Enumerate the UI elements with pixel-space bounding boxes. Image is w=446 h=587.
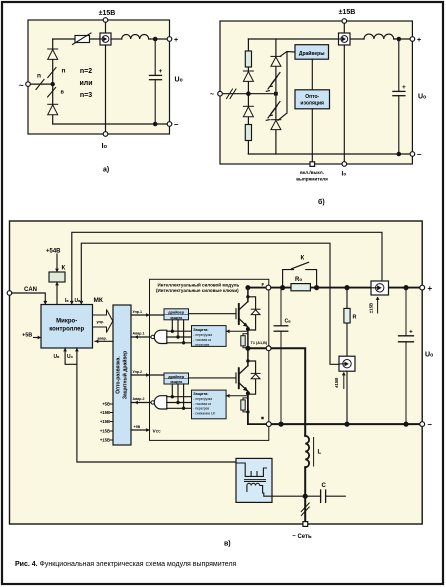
driver 2 status pins down [172,384,183,408]
wire +54V to relay coil K [56,254,58,272]
svg-text:- токовая кз: - токовая кз [193,338,211,342]
terminal - (b) [410,152,415,157]
svg-text:n: n [62,68,66,75]
svg-text:~: ~ [19,81,24,90]
svg-text:- перегрев: - перегрев [193,343,209,347]
gate 1 inversion bubble [151,335,154,338]
mains sense transformer box [236,458,272,502]
svg-text:Защита:: Защита: [193,392,208,396]
arrow into MK top pin1 [70,301,74,305]
emitter wire 2 with shunt to module bottom [248,393,269,424]
wire inductor to + terminal (b) [394,38,413,40]
junction shunt 1 bottom [246,346,249,349]
junction bottom bus at sensor 2 [344,422,349,427]
collector wire IGBT 2 to mid node [247,348,249,365]
resistor divider leg (b) [247,39,249,154]
svg-text:МК: МК [94,297,103,304]
wire trace Iv: MK top to current sensor 1 [72,232,382,304]
svg-text:C: C [322,483,327,489]
thyristor slash upper (a) [48,68,56,78]
opto supply label +5V [100,402,110,443]
node input junction (a) [51,82,55,86]
arrow Upr2 at module edge [146,373,149,377]
gate wire driver 1 to IGBT 1 [189,313,237,315]
svg-text:в): в) [224,541,231,548]
svg-text:контроллер: контроллер [49,327,84,333]
wire terminal to sensor (b) [343,23,345,33]
terminal module mid output [266,346,271,351]
emitter wire 1 with shunt [247,329,249,348]
svg-text:Т1 (А1,В): Т1 (А1,В) [251,341,268,345]
current sensor box (a) [100,33,111,45]
capacitor Co (a) [150,39,162,124]
svg-text:- токовая кз: - токовая кз [193,402,211,406]
wire +5V into MK with arrow [34,337,42,339]
svg-text:Iо: Iо [342,171,347,178]
freewheel diode 1 [251,309,260,314]
current sensor 1 box on bus [371,281,389,295]
svg-text:+15В: +15В [100,410,110,415]
varistor RU (a) [73,33,92,45]
svg-text:F: F [262,282,265,287]
svg-text:+: + [417,37,421,44]
schematic frame box v [10,221,423,524]
terminal - (a) [167,122,172,127]
voltage sensor 2 box [339,356,355,371]
wire inductor to + terminal (a) [149,38,170,40]
arrow +5V into module [146,428,149,432]
svg-text:упр.: упр. [97,320,104,324]
wire left branch vertical (a) [52,39,54,124]
gate wires from drivers box (b) [278,52,295,121]
svg-text:n=2: n=2 [80,68,92,75]
thyristor T1 (b) [271,56,281,66]
svg-text:авар.: авар. [98,337,107,341]
driver 1 status pins down [172,320,183,343]
svg-text:Uо: Uо [425,352,433,359]
label on-off rectifier (b) [296,170,328,182]
boost inductor L [305,436,309,467]
junction top bus at Uo cap [403,285,408,290]
wire sensor 2 to bottom bus [346,371,348,424]
opto supply stub wires [111,404,114,440]
junction mid node [245,346,250,351]
wire sensor to Io terminal (a) [105,45,107,134]
svg-text:+: + [159,68,163,75]
resistor R [344,308,350,323]
resistor R1 (b) [245,51,251,67]
svg-text:Упр.1: Упр.1 [133,310,142,314]
svg-text:±15В: ±15В [368,303,373,313]
svg-text:Защита:: Защита: [193,328,208,332]
supply wire +5V to module Vcc [131,429,150,431]
terminal +15V (a) [103,18,108,23]
diode D2 (b) [243,106,253,116]
svg-text:Авар.1: Авар.1 [133,332,145,336]
terminal +-15V (b) [342,19,347,24]
arrow into coil K bottom [55,282,59,285]
svg-text:Авар.2: Авар.2 [133,397,145,401]
control wire Upr2 opto to driver 2 [131,374,164,376]
input slash (a) [36,80,44,90]
svg-text:+5В: +5В [102,402,110,407]
svg-text:К: К [62,266,66,272]
junction bottom bus at Uo cap [403,422,408,427]
wire terminal to current sensor (a) [105,22,107,33]
bypass switch K legs [283,270,317,288]
wire L to mains terminal [304,467,306,522]
wire top rail (b) [248,38,364,40]
terminal module bottom output [266,422,271,427]
svg-text:- перегрузка: - перегрузка [193,397,212,401]
junction dots driver 2 pins [171,395,186,410]
current sense wire shunt 1 to protection 1 [226,330,248,332]
svg-text:±15В: ±15В [99,10,116,17]
thyristor T2 gate marks (b) [266,102,280,121]
inductor L (b) [364,34,394,39]
junction node cap top (b) [397,37,402,42]
svg-text:~: ~ [210,92,214,99]
diode D1 (a) [48,49,58,59]
resistor Ro [291,284,310,291]
svg-text:Микро-: Микро- [56,319,77,325]
svg-text:выпрямителя: выпрямителя [296,177,328,182]
wire coil K to MK [56,282,58,305]
svg-text:+54В: +54В [46,249,61,255]
IGBT 2 emitter arrow [243,387,248,391]
inductor core bar [313,438,315,467]
svg-text:Опто-развязка.: Опто-развязка. [116,356,122,394]
svg-text:Интеллектуальный силовой модул: Интеллектуальный силовой модуль [158,281,240,287]
arrow Uo into MK bottom [75,348,79,351]
arrow into MK top pin2 [79,301,83,305]
thyristor T2 (b) [271,120,281,130]
terminal Io (b) [342,162,347,167]
fault wire opto to MK [95,340,113,342]
opto isolation driver box (vertical) [113,305,131,445]
top DC bus wire [248,287,422,289]
output capacitor Uo (v) [399,288,414,425]
schematic frame box a [28,20,170,134]
IGBT 1 [236,302,248,328]
thyristor leg vertical (b) [275,39,277,154]
arrow Avar2 into opto [135,401,138,405]
freewheel diode 2 branch [248,361,256,394]
terminal module top output [266,285,271,290]
filter capacitor C branch [305,490,345,502]
terminal input ~ (a) [26,82,31,87]
svg-text:+: + [174,37,178,44]
gate 2 input wires [167,397,192,409]
wire bottom rail (b) [248,153,412,155]
inductor L (a) [122,35,149,40]
schematic frame box b [220,21,412,164]
multiwire slashes mains [301,503,309,516]
svg-text:+15В: +15В [100,419,110,424]
wire Uo feedback below MK to mains transformer [77,348,236,462]
svg-text:защита: защита [170,316,182,320]
svg-text:Uо: Uо [175,77,183,84]
svg-text:–: – [174,120,179,129]
arrow into coil K top [55,269,59,272]
capacitor Co (b) [393,39,405,154]
bypass switch K blade [292,262,309,269]
junction diode 2 top [246,359,249,362]
junction diode 1 top [246,295,249,298]
svg-text:- перегрев: - перегрев [193,407,209,411]
shunt resistor 2 [241,398,248,412]
terminal input ~ (b) [218,91,223,96]
thyristor T1 gate marks (b) [266,73,280,92]
node input junction 1 (b) [246,91,251,96]
svg-text:б): б) [318,198,325,206]
wire trace Uv: MK top to voltage sensor 2 [81,243,339,364]
terminal - output (v) [420,422,425,427]
svg-text:драйвер: драйвер [168,375,185,379]
snubber capacitor Cv [274,288,288,425]
drivers box (b) [295,45,329,60]
emitter node 1 [246,327,250,331]
svg-text:а): а) [103,167,109,174]
freewheel diode 1 branch [248,297,256,330]
svg-text:вкл./выкл.: вкл./выкл. [300,170,324,175]
wire drivers to optoisolation (b) [311,59,313,90]
svg-text:Защитный драйвер: Защитный драйвер [122,351,129,399]
svg-text:+5В: +5В [134,425,141,429]
svg-text:+: + [402,84,406,91]
relay coil K box [49,272,65,282]
gate 1 input wires [167,331,192,343]
junction node L-C [303,494,308,499]
junction node at cap top (a) [153,37,158,42]
junction shunt 2 bottom [246,410,249,413]
resistor R2 (b) [245,125,251,141]
wire Uv feedback below MK [65,348,77,364]
IGBT 1 emitter arrow [243,323,248,327]
gate wire driver 2 to IGBT 2 [189,377,237,379]
fault wire Avar2 gate 2 to opto [131,402,151,404]
terminal + (a) [167,37,172,42]
svg-text:Uо: Uо [418,94,426,101]
wire sensor to Io terminal (b) [343,45,345,164]
svg-text:–: – [417,150,422,159]
arrowhead into sensor 2 [342,372,346,375]
wire top rail left segment (a) [53,38,100,40]
svg-text:- перегрузка: - перегрузка [193,333,212,337]
terminal Io (a) [103,132,108,137]
arrow Uv into MK bottom [63,348,67,351]
arrow sense into protection 2 [226,394,229,398]
svg-text:L: L [318,450,322,456]
node input junction 2 (b) [274,92,278,96]
input wire (a) [28,83,53,85]
junction node cap bottom (b) [397,152,402,157]
arrow +5V into MK left [38,336,41,340]
svg-text:n: n [37,73,41,80]
svg-text:защита: защита [170,380,182,384]
svg-text:Драйверы: Драйверы [299,50,325,57]
svg-text:–: – [428,420,433,429]
supply arrow into sensor 1 [377,298,379,314]
svg-text:изоляция: изоляция [300,100,324,106]
control wire Upr1 opto to driver 1 [131,314,164,316]
svg-text:~ Сеть: ~ Сеть [292,534,312,540]
junction top bus at Cv and K [280,285,285,290]
wire transformer to L-C node [272,495,305,497]
IGBT 2 [236,366,248,392]
intelligent power module box [150,279,269,440]
svg-text:CAN: CAN [24,287,37,293]
wire bottom rail (a) [53,123,170,125]
module header text [156,281,239,293]
svg-text:+: + [409,329,413,336]
bottom DC bus wire [269,423,422,425]
svg-text:n=3: n=3 [80,92,92,99]
svg-text:±15В: ±15В [334,378,339,388]
arrow CAN into MK top [43,301,47,305]
diode D2 (a) [48,104,58,114]
svg-text:К: К [301,256,305,262]
AND gate 1 (fault, left facing) [154,330,167,343]
junction bottom bus at Cv [278,422,283,427]
svg-text:Упр.2: Упр.2 [133,370,142,374]
fault wire Avar1 gate 1 to opto [131,336,151,338]
arrow Upr1 at module edge [146,313,149,317]
wire sensor to inductor (a) [111,38,122,40]
resistor R branch wire [346,288,348,357]
optoisolation box (b) [295,90,330,109]
tiny marker at module bottom terminal [261,417,263,419]
svg-text:драйвер: драйвер [168,311,185,315]
thyristor slash lower (a) [48,88,56,98]
terminal mains [303,522,308,527]
arrow Avar1 into opto [135,335,138,339]
junction top bus at R branch [344,285,349,290]
terminal CAN [7,291,12,296]
svg-text:Опто-: Опто- [305,94,319,100]
microcontroller MK box [41,305,93,349]
terminal + output (v) [420,285,425,290]
junction dots driver 1 pins [171,330,186,345]
protection box 2 [192,390,227,419]
svg-text:+15В: +15В [100,429,110,434]
supply arrow into sensor 2 [343,373,345,389]
svg-text:+15В: +15В [100,438,110,443]
arrow fault into MK right [95,339,98,343]
arrowhead into sensor 1 [376,297,380,300]
current sensor box (b) [339,33,351,45]
current sense wire shunt 2 to protection 2 [226,395,248,397]
arrow sense into protection 1 [226,329,229,333]
gate 2 inversion bubble [151,401,154,404]
junction top bus right of Ro [314,285,319,290]
label n=2 или n=3 (a) [79,68,92,99]
svg-text:- снижение Uп: - снижение Uп [193,411,215,415]
driver 2 box [164,373,189,384]
AND gate 2 (fault, left facing) [154,396,167,409]
input multiwire slashes (b) [227,89,237,99]
svg-text:±15В: ±15В [339,9,356,16]
svg-text:+: + [428,284,433,293]
shunt resistor 1 [241,334,248,348]
wire CAN to MK [12,293,46,305]
emitter node 2 [246,391,250,395]
freewheel diode 2 [251,373,260,378]
driver 1 box [164,309,189,320]
collector wire IGBT 1 to top bus [247,288,249,302]
terminal on-off (b) [310,162,315,167]
svg-text:или: или [79,80,92,87]
control bus hollow arrow MK to opto [93,310,113,333]
junction collector 1 on bus [245,285,250,290]
wire optoisolation to on-off terminal (b) [311,109,313,164]
terminal + (b) [410,37,415,42]
junction node at cap bottom (a) [153,122,158,127]
svg-text:Рис. 4. Функциональная электри: Рис. 4. Функциональная электрическая схе… [15,561,237,568]
protection box 1 [192,326,227,347]
svg-text:(Интеллектуальные силовые ключ: (Интеллектуальные силовые ключи) [156,288,239,293]
half-bridge mid wire to L [248,348,305,436]
svg-text:+5В: +5В [22,333,32,339]
svg-text:R: R [353,315,357,321]
input wire (b) [220,93,276,95]
diode D1 (b) [243,71,253,81]
